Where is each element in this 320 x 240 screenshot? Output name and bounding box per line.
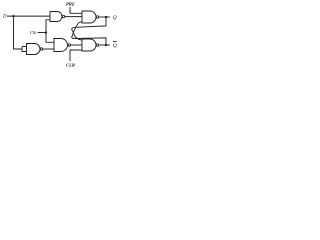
svg-text:Clk: Clk [30,30,37,35]
svg-text:CLR: CLR [66,62,75,67]
svg-text:D: D [2,15,7,20]
svg-text:Q: Q [113,15,117,21]
svg-text:Q: Q [113,43,117,49]
svg-text:PRE: PRE [66,1,75,6]
